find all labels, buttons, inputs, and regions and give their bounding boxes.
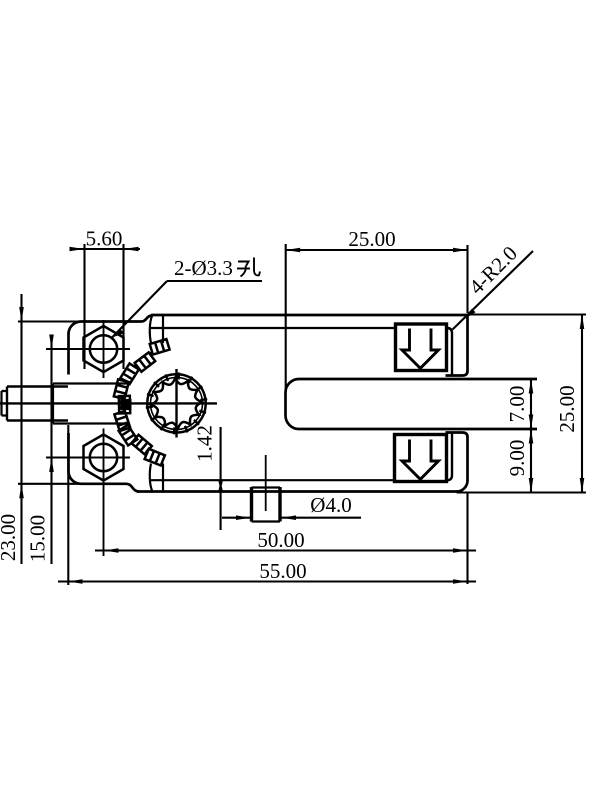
neck line top right [162, 316, 164, 344]
arrow icon bottom [402, 440, 439, 480]
left edge lower segment [67, 433, 70, 471]
ratchet teeth chain [114, 339, 170, 465]
svg-text:9.00: 9.00 [505, 440, 529, 477]
dim 5.60 line [70, 244, 140, 369]
svg-text:Ø4.0: Ø4.0 [310, 493, 351, 517]
shaft tip [2, 391, 8, 416]
centerlines bottom hex + 50.00 extension [46, 429, 130, 557]
dim 23.00 [18, 294, 81, 564]
hole circle top [90, 335, 117, 362]
slot top edge (extends as 7.00 extension) [299, 378, 537, 381]
bottom-left corner arc [68, 471, 81, 484]
dim 7.00 [530, 379, 532, 429]
clip arm tab top finger [446, 328, 452, 376]
slot rounded left end [286, 379, 300, 429]
knurl tick marks [146, 373, 207, 435]
hole circle bottom [90, 444, 117, 471]
part bottom edge (main body) [137, 490, 457, 493]
svg-text:15.00: 15.00 [26, 515, 50, 562]
clip arm tab bottom finger [446, 433, 452, 481]
svg-text:7.00: 7.00 [505, 386, 529, 423]
knurled knob second circle [151, 377, 203, 429]
knurl scalloped inner edge [151, 378, 201, 428]
button square top (covers arm line) [396, 324, 447, 371]
svg-text:1.42: 1.42 [193, 425, 217, 462]
part top edge (main body) [151, 314, 468, 317]
slot bottom edge (extends as 9.00 extension) [299, 428, 537, 431]
top-left corner arc [69, 322, 82, 335]
svg-text:5.60: 5.60 [86, 227, 123, 251]
neck curve top left [150, 316, 152, 343]
clip arm inner line top [150, 327, 448, 329]
head bottom edge with step [81, 484, 139, 492]
head top edge with step [81, 315, 153, 321]
centerlines top hex [46, 320, 130, 378]
svg-text:25.00: 25.00 [348, 227, 395, 251]
dim 9.00 [530, 429, 532, 493]
svg-text:23.00: 23.00 [0, 514, 20, 561]
svg-text:25.00: 25.00 [555, 385, 579, 432]
dim 50.00 [95, 549, 476, 551]
dim 55.00 [58, 425, 476, 585]
bottom-right corner arc [457, 481, 468, 492]
neck line bottom right [162, 464, 164, 492]
button square bottom [395, 435, 447, 482]
neck curve bottom left [150, 464, 152, 491]
left edge upper segment [67, 333, 70, 375]
dim O4.0 [222, 517, 361, 519]
arrow icon top [402, 329, 439, 369]
svg-text:55.00: 55.00 [259, 559, 306, 583]
right edge bottom finger [446, 433, 468, 482]
hex nut top [84, 326, 124, 372]
right edge top finger [446, 315, 468, 376]
knob centerline vertical [175, 369, 177, 438]
pin centerline [265, 455, 267, 511]
knurled knob outer circle [147, 374, 205, 432]
dim 1.42 [220, 427, 222, 530]
clip arm inner line bottom [150, 479, 448, 481]
dim 25.00 top line [286, 244, 468, 392]
dim 15.00 [50, 338, 52, 564]
solid pawl block [120, 399, 131, 410]
dim 25.00 right [457, 315, 587, 493]
svg-text:50.00: 50.00 [257, 528, 304, 552]
hex nut bottom [84, 434, 124, 480]
kong character [237, 258, 260, 277]
shaft boss [53, 384, 127, 424]
knob centerline horizontal [0, 402, 217, 404]
callout 4-R2.0 leader [453, 251, 534, 330]
pin boss bottom [252, 488, 281, 522]
shaft rod [7, 387, 68, 421]
svg-text:2-Ø3.3: 2-Ø3.3 [174, 256, 233, 280]
callout 2-O3.3 leader [112, 281, 262, 338]
